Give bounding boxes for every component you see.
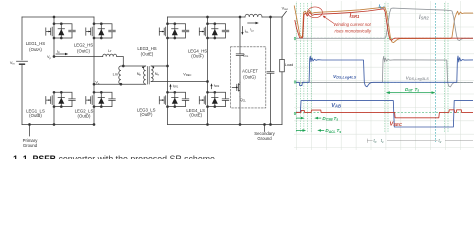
ACLFET dashed box — [231, 47, 266, 108]
resistor Load — [281, 17, 283, 125]
arrow i_CL — [241, 27, 243, 33]
svg-text:(OutF): (OutF) — [140, 112, 153, 117]
wire Q_CL source to rail — [239, 97, 241, 125]
svg-text:(OutE): (OutE) — [141, 51, 154, 56]
transistor LEG2_HS cell (FET+diode+cap) — [86, 23, 116, 39]
svg-text:LEG1_HS: LEG1_HS — [26, 41, 45, 46]
polarity dot secondary — [153, 67, 154, 68]
wire primary bottom rail — [22, 124, 94, 126]
arrow i_in — [56, 53, 66, 55]
svg-text:(OutE): (OutE) — [189, 112, 202, 117]
transistor LEG3_HS cell (FET+diode+cap) — [159, 23, 189, 39]
svg-text:VSEC: VSEC — [390, 121, 403, 127]
wire transformer bottom primary — [94, 83, 146, 85]
svg-text:t2: t2 — [439, 138, 442, 144]
svg-text:Ts: Ts — [334, 116, 339, 122]
wire primary top rail — [22, 16, 94, 18]
wire leg4 midpoint drop — [207, 38, 209, 92]
svg-text:Winding current not: Winding current not — [334, 22, 372, 27]
svg-text:ISR1: ISR1 — [350, 14, 360, 20]
svg-text:VDS,Leg4LS: VDS,Leg4LS — [333, 74, 357, 80]
svg-text:Ground: Ground — [23, 143, 38, 148]
capacitor C_CL — [236, 54, 244, 82]
arrow i_SR1 — [170, 86, 172, 89]
polarity dot primary — [142, 67, 143, 68]
transistor Q_CL (ACLFET) — [232, 82, 240, 97]
measure D_eff Ts — [386, 91, 436, 94]
wire secondary bottom (Ns bottom to leg4 mid) — [151, 81, 207, 83]
wire leg3 midpoint drop — [167, 38, 169, 92]
battery Vin — [17, 17, 28, 125]
measure D_CSB Ts — [296, 117, 321, 120]
transistor LEG1_LS cell (FET+diode+cap) — [46, 91, 76, 107]
node Vout diagonal tick — [282, 11, 286, 17]
time axis — [367, 139, 473, 143]
svg-text:QCL: QCL — [240, 98, 247, 103]
wire secondary top rail to output — [168, 16, 283, 18]
ground primary stub — [29, 125, 31, 137]
svg-text:iSR1: iSR1 — [173, 84, 179, 89]
inductor Lr — [103, 54, 117, 56]
svg-text:Ground: Ground — [257, 136, 272, 141]
svg-text:LEG2_HS: LEG2_HS — [74, 43, 93, 48]
trace V_SEC (red, bottom plot) — [296, 110, 473, 118]
trace V_AB (blue, bottom plot) — [296, 101, 473, 127]
svg-text:Deff: Deff — [405, 87, 413, 93]
svg-text:(OutF): (OutF) — [191, 54, 204, 59]
arrow i_Lo — [248, 22, 257, 24]
svg-text:VDS,Leg3LS: VDS,Leg3LS — [406, 76, 430, 82]
svg-text:Ts: Ts — [415, 87, 420, 93]
svg-text:VAB: VAB — [331, 103, 341, 109]
svg-text:iLr: iLr — [379, 4, 385, 10]
transistor LEG4_HS cell (FET+diode+cap) — [199, 23, 229, 39]
wire secondary bottom rail — [168, 124, 283, 126]
inductor Lm (magnetizing) — [119, 66, 121, 84]
zero baselines — [296, 38, 473, 112]
svg-text:(OutG): (OutG) — [243, 74, 256, 79]
svg-text:Ts: Ts — [337, 128, 342, 134]
svg-text:(OutD): (OutD) — [78, 113, 91, 118]
svg-text:(OutB): (OutB) — [29, 113, 42, 118]
svg-text:(OutC): (OutC) — [77, 48, 90, 53]
transformer core — [148, 67, 150, 85]
transformer T1 primary winding Np — [144, 66, 146, 84]
wire leg1 midpoint Vp to Lr — [54, 38, 123, 66]
timing dashed vertical markers — [296, 3, 448, 133]
wire transformer top primary — [121, 65, 146, 67]
trace V_DS Leg4LS (blue, middle plot) — [296, 56, 473, 87]
svg-text:rises monotonically: rises monotonically — [335, 28, 372, 33]
svg-text:Vin: Vin — [10, 61, 15, 66]
arrow i_SR2 — [211, 86, 213, 89]
wire active clamp feed from top rail — [239, 17, 241, 54]
ground secondary stub — [264, 125, 266, 132]
svg-text:1. 1. PSFB converter with the: 1. 1. PSFB converter with the proposed S… — [13, 154, 217, 159]
svg-text:Lm: Lm — [113, 72, 118, 76]
svg-text:LEG3_HS: LEG3_HS — [137, 46, 156, 51]
annotation ellipse (winding current) — [308, 7, 323, 18]
svg-text:ACLFET: ACLFET — [242, 68, 258, 73]
svg-text:(OutA): (OutA) — [29, 47, 42, 52]
svg-text:DCSB: DCSB — [322, 116, 333, 122]
inductor Lout — [245, 14, 262, 17]
svg-text:LEG4_HS: LEG4_HS — [188, 48, 207, 53]
svg-text:Load: Load — [285, 63, 293, 67]
transistor LEG2_LS cell (FET+diode+cap) — [86, 91, 116, 107]
transistor LEG4_LS cell (FET+diode+cap) — [199, 91, 229, 107]
svg-text:DACL: DACL — [325, 128, 335, 134]
node dots — [29, 16, 272, 125]
svg-text:VREC: VREC — [183, 73, 191, 78]
capacitor Cout — [267, 17, 274, 125]
trace i_Lr (orange, top plot) — [294, 6, 473, 43]
svg-text:t0: t0 — [374, 138, 377, 144]
wire HS cell drops from rails — [54, 17, 208, 24]
wire LS sources to bottom rails — [54, 107, 208, 125]
svg-text:iSR2: iSR2 — [214, 84, 220, 89]
trace V_DS Leg3LS (gray, middle plot) — [296, 56, 473, 87]
transistor LEG1_HS cell (FET+diode+cap) — [46, 23, 76, 39]
svg-text:t1: t1 — [381, 138, 384, 144]
trace I_SR1 (red, top plot) — [295, 9, 473, 41]
measure D_ACL Ts — [296, 129, 324, 132]
transistor LEG3_LS cell (FET+diode+cap) — [159, 91, 189, 107]
wire secondary top (Ns top to leg3 mid) — [151, 65, 167, 67]
wire leg2 midpoint drop — [93, 38, 95, 92]
trace I_SR2 (gray, top plot) — [296, 8, 473, 41]
transformer T1 secondary winding Ns — [151, 66, 153, 82]
svg-text:ISR2: ISR2 — [419, 15, 429, 21]
